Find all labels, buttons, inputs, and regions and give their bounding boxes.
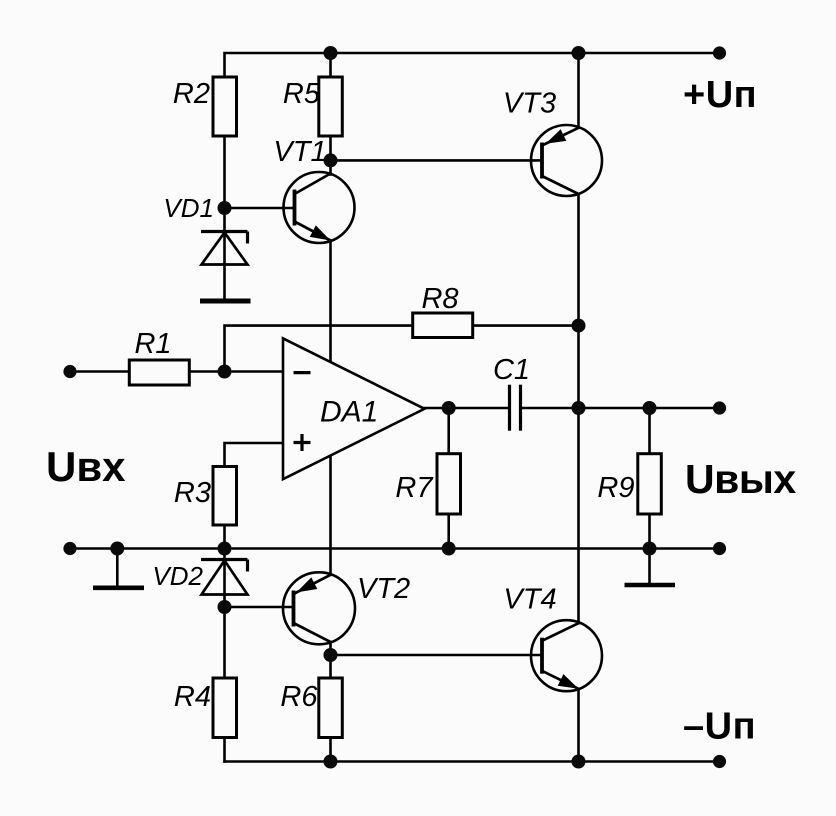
wire: input terminal to R1 bbox=[70, 370, 129, 373]
wire: R6 bottom lead bbox=[329, 738, 332, 762]
resistor R1 bbox=[129, 360, 189, 385]
svg-text:R8: R8 bbox=[421, 283, 458, 315]
svg-text:R7: R7 bbox=[395, 472, 434, 504]
svg-text:R1: R1 bbox=[134, 328, 171, 360]
op-amp DA1 inverting pin minus sign bbox=[294, 371, 311, 374]
wire: VD2 branch from mid rail down to R4 top bbox=[223, 549, 226, 679]
wire: VT3 collector down through R8 node to output node bbox=[577, 194, 580, 408]
wire: VT1 collector node to VT3 base bbox=[331, 159, 543, 162]
junction dot: VT2 collector / VT4 base node bbox=[324, 648, 338, 662]
svg-text:VT3: VT3 bbox=[503, 88, 556, 120]
svg-text:R2: R2 bbox=[173, 78, 210, 110]
wire: output row down to R9 bbox=[648, 408, 651, 454]
junction dot: R8 at VT3 collector column bbox=[572, 319, 586, 333]
svg-text:–Uп: –Uп bbox=[683, 706, 756, 748]
wire: VT2 base wire from VD2 anode node bbox=[225, 606, 294, 609]
svg-text:C1: C1 bbox=[493, 354, 530, 386]
wire: C1 right plate to output terminal bbox=[522, 407, 720, 410]
ground under R9 bbox=[625, 583, 676, 588]
svg-text:R4: R4 bbox=[174, 681, 211, 713]
terminal dot: mid rail left bbox=[63, 542, 76, 555]
wire: R1 to DA1 inverting input bbox=[189, 370, 283, 373]
junction dot: R6 bottom on -Up rail bbox=[324, 755, 338, 769]
svg-text:R9: R9 bbox=[597, 472, 634, 504]
resistor R7 bbox=[437, 454, 461, 514]
wire: mid ground rail bbox=[70, 547, 720, 550]
junction dot: R3 bottom on mid rail bbox=[218, 542, 232, 556]
junction dot: output column at C1 row bbox=[572, 401, 586, 415]
wire: VT1 base wire from VD1 node bbox=[225, 207, 295, 210]
junction dot: VT4 emitter on -Up rail bbox=[572, 755, 586, 769]
terminal dot: mid rail right bbox=[713, 542, 726, 555]
svg-text:Uвых: Uвых bbox=[685, 456, 796, 502]
transistor Q VT1 (NPN) bbox=[284, 172, 355, 243]
wire: VT1 emitter down to DA1 positive supply pin bbox=[329, 241, 332, 363]
transistor Q VT4 (NPN) bbox=[531, 620, 602, 691]
terminal dot: output right bbox=[713, 401, 726, 414]
diode VD1 (zener) bbox=[201, 232, 248, 265]
wire: left ground stub bbox=[116, 549, 119, 587]
wire: top rail down to VT3 emitter bbox=[577, 53, 580, 128]
wire: VT2 collector node to VT4 base bbox=[331, 654, 543, 657]
wire: R9 bottom lead to mid rail bbox=[648, 514, 651, 549]
svg-text:VT1: VT1 bbox=[273, 136, 326, 168]
terminal dot: input Uvx bbox=[63, 365, 76, 378]
wire: DA1 non-inverting input left and down to R3 bbox=[225, 443, 284, 467]
terminal dot: +Up bbox=[713, 46, 726, 59]
svg-text:R3: R3 bbox=[174, 477, 211, 509]
terminal dot: -Up bbox=[713, 755, 726, 768]
wire: R3 bottom lead to mid rail bbox=[223, 525, 226, 549]
svg-text:R5: R5 bbox=[283, 78, 321, 110]
junction dot: R5 top on +Up rail bbox=[324, 46, 338, 60]
resistor R6 bbox=[319, 678, 343, 738]
svg-text:VD2: VD2 bbox=[152, 561, 203, 591]
svg-text:+Uп: +Uп bbox=[683, 74, 757, 116]
resistor R3 bbox=[213, 467, 237, 526]
wire: R2 bottom lead down to VD1 node bbox=[223, 136, 226, 208]
wire: R5 top lead bbox=[329, 53, 332, 77]
resistor R4 bbox=[213, 678, 237, 738]
wire: DA1 output to C1 left plate bbox=[425, 407, 509, 410]
wire: R4 bottom lead into bottom rail bbox=[223, 738, 226, 762]
wire: top +Up rail from R2 top across to right terminal bbox=[225, 53, 720, 77]
svg-text:Uвх: Uвх bbox=[46, 443, 126, 490]
wire: VD1 node down through zener to ground bbox=[223, 208, 226, 299]
svg-text:VD1: VD1 bbox=[163, 193, 214, 223]
capacitor C1 plates bbox=[510, 385, 521, 431]
svg-text:R6: R6 bbox=[280, 681, 318, 713]
junction dot: VT3 column on +Up rail bbox=[572, 46, 586, 60]
junction dot: DA1 output node bbox=[442, 401, 456, 415]
resistor R9 bbox=[638, 454, 662, 514]
resistor R8 bbox=[413, 313, 473, 338]
wire: VT2 collector down to R6 top bbox=[329, 642, 332, 678]
junction dot: VT1 collector / VT3 base node bbox=[324, 153, 338, 167]
transistor Q VT3 (PNP) bbox=[531, 125, 602, 196]
wire: R7 bottom lead to mid rail bbox=[447, 514, 450, 549]
wire: DA1 negative supply pin down to VT2 emitter bbox=[329, 455, 332, 575]
junction dot: VD2 anode / VT2 base node bbox=[218, 600, 232, 614]
svg-text:DA1: DA1 bbox=[320, 396, 378, 429]
ground on mid rail (left) bbox=[93, 585, 144, 590]
transistor Q VT2 (PNP) bbox=[283, 572, 355, 644]
junction dot: R9 top bbox=[643, 401, 657, 415]
wire: R8 right lead to VT3 collector column bbox=[473, 324, 579, 327]
junction dot: left ground tap bbox=[110, 542, 124, 556]
junction dot: VD1 / VT1 base node bbox=[218, 201, 232, 215]
svg-text:VT4: VT4 bbox=[503, 584, 556, 616]
diode VD2 (zener) bbox=[201, 560, 248, 595]
op-amp U DA1 triangle body bbox=[283, 338, 425, 479]
wire: bottom -Up rail bbox=[225, 760, 720, 763]
junction dot: R7 bottom on mid rail bbox=[442, 542, 456, 556]
svg-text:VT2: VT2 bbox=[357, 573, 410, 605]
wire: feedback run from inverting node up and right to R8 bbox=[225, 326, 413, 372]
op-amp DA1 non-inverting pin plus sign bbox=[294, 434, 311, 451]
wire: output node down to R7 bbox=[447, 408, 450, 454]
wire: right ground stub under R9 bbox=[648, 549, 651, 584]
wire: VT4 emitter down to bottom rail bbox=[577, 689, 580, 762]
wire: output node down to VT4 collector (crosses mid rail) bbox=[577, 408, 580, 623]
wire: R5 bottom lead to VT1 collector node bbox=[329, 136, 332, 175]
junction dot: inverting input node bbox=[218, 365, 232, 379]
junction dot: R9 bottom on mid rail bbox=[643, 542, 657, 556]
ground under VD1 bbox=[200, 299, 251, 304]
resistor R5 bbox=[319, 77, 343, 136]
resistor R2 bbox=[213, 77, 237, 136]
